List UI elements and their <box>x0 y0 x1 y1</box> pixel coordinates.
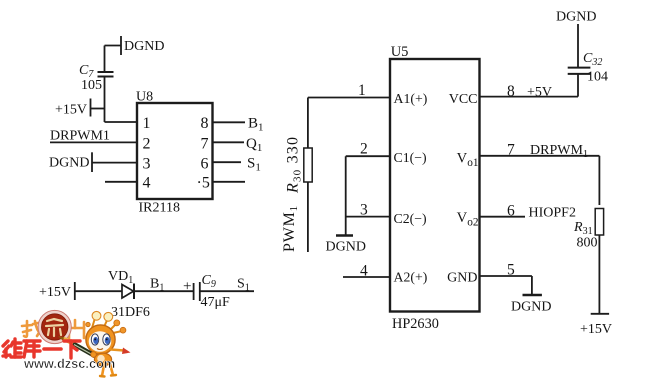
svg-text:47μF: 47μF <box>201 295 231 310</box>
svg-text:A2(+): A2(+) <box>394 270 428 286</box>
svg-text:www.dzsc.com: www.dzsc.com <box>23 356 115 371</box>
svg-text:HIOPF2: HIOPF2 <box>529 205 576 220</box>
svg-text:1: 1 <box>358 82 366 99</box>
svg-text:DGND: DGND <box>556 10 596 25</box>
svg-text:PWM1: PWM1 <box>281 205 300 252</box>
svg-text:Vo2: Vo2 <box>457 210 479 228</box>
svg-text:GND: GND <box>447 271 477 286</box>
svg-text:105: 105 <box>81 78 102 93</box>
svg-text:104: 104 <box>587 70 608 85</box>
svg-text:8: 8 <box>201 115 209 132</box>
svg-text:+5V: +5V <box>527 85 552 100</box>
svg-text:IR2118: IR2118 <box>139 200 180 215</box>
svg-text:Q1: Q1 <box>246 136 262 154</box>
svg-text:A1(+): A1(+) <box>394 91 428 107</box>
svg-text:S1: S1 <box>237 277 250 294</box>
svg-text:8: 8 <box>507 83 515 100</box>
svg-text:+15V: +15V <box>580 322 612 337</box>
svg-text:7: 7 <box>201 135 209 152</box>
svg-text:7: 7 <box>507 142 515 159</box>
svg-text:4: 4 <box>360 262 368 279</box>
svg-text:31DF6: 31DF6 <box>111 305 150 320</box>
svg-text:DRPWM1: DRPWM1 <box>50 129 110 144</box>
svg-text:3: 3 <box>360 201 368 218</box>
svg-text:B1: B1 <box>248 116 264 134</box>
svg-text:3: 3 <box>143 155 151 172</box>
svg-text:+15V: +15V <box>55 103 87 118</box>
svg-text:5: 5 <box>507 261 515 278</box>
svg-text:DRPWM1: DRPWM1 <box>530 143 588 160</box>
svg-text:R31: R31 <box>573 220 593 237</box>
svg-text:1: 1 <box>143 115 151 132</box>
svg-text:2: 2 <box>360 140 368 157</box>
svg-text:·5: ·5 <box>197 174 210 191</box>
svg-text:DGND: DGND <box>511 300 551 315</box>
svg-text:B1: B1 <box>150 277 164 294</box>
svg-text:U5: U5 <box>391 44 409 60</box>
svg-text:6: 6 <box>507 203 515 220</box>
svg-text:2: 2 <box>143 135 151 152</box>
svg-text:VCC: VCC <box>449 92 478 107</box>
svg-text:Vo1: Vo1 <box>457 150 479 168</box>
svg-text:800: 800 <box>577 236 598 251</box>
svg-text:C9: C9 <box>202 273 216 290</box>
svg-text:6: 6 <box>201 155 209 172</box>
svg-text:HP2630: HP2630 <box>392 316 439 332</box>
svg-text:DGND: DGND <box>124 39 164 54</box>
svg-text:C32: C32 <box>583 51 602 68</box>
svg-text:DGND: DGND <box>326 240 366 255</box>
svg-text:+: + <box>183 279 191 295</box>
svg-text:4: 4 <box>143 174 151 191</box>
svg-text:VD1: VD1 <box>108 269 133 286</box>
svg-text:DGND: DGND <box>49 156 89 171</box>
svg-text:S1: S1 <box>247 156 261 174</box>
svg-text:+15V: +15V <box>39 285 71 300</box>
svg-text:U8: U8 <box>136 90 153 105</box>
svg-text:R30 330: R30 330 <box>285 136 304 194</box>
svg-text:C1(−): C1(−) <box>394 150 427 166</box>
svg-text:C2(−): C2(−) <box>394 211 427 227</box>
